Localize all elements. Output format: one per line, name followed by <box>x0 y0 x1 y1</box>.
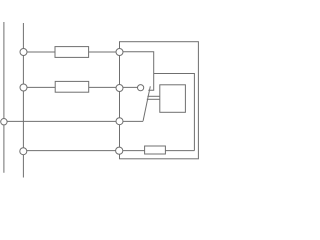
node N1 <box>116 49 123 56</box>
wire T-junction to inner loop <box>154 74 195 151</box>
switch fixed contact circle <box>138 85 144 91</box>
wire left bus vertical <box>3 22 5 173</box>
wire row3 horizontal <box>4 120 143 122</box>
wire row1 horizontal <box>23 51 119 53</box>
resistor R2 <box>55 81 88 92</box>
node N2 <box>116 85 123 92</box>
node N3 <box>116 118 123 125</box>
node N4 <box>116 147 123 154</box>
resistor R1 <box>55 47 89 58</box>
wire N1 to switch throw L-path <box>123 52 154 91</box>
wire outer loop rectangle <box>120 42 199 159</box>
actuator box K1 <box>160 85 186 113</box>
node C2 <box>20 84 27 91</box>
wire row4 horizontal <box>23 150 194 152</box>
resistor R3 <box>145 146 166 154</box>
node C3 <box>20 148 27 155</box>
node C1 <box>20 49 27 56</box>
wire row2 horizontal <box>23 86 137 88</box>
mechanical link line 2 <box>147 98 160 100</box>
wire second bus vertical <box>22 23 24 178</box>
mechanical link line 1 <box>147 95 159 97</box>
switch blade diagonal <box>143 86 150 121</box>
node N0 <box>1 119 7 125</box>
